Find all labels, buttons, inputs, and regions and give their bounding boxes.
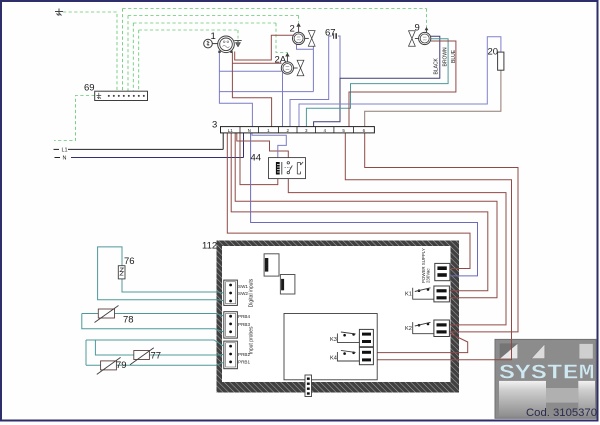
svg-text:PRB2: PRB2 bbox=[238, 352, 250, 357]
svg-text:K3: K3 bbox=[330, 337, 337, 343]
svg-text:SW1: SW1 bbox=[238, 284, 248, 289]
svg-text:Digital inputs: Digital inputs bbox=[249, 278, 255, 307]
svg-text:67: 67 bbox=[325, 28, 336, 39]
svg-text:BLUE: BLUE bbox=[451, 49, 457, 63]
svg-text:69: 69 bbox=[84, 83, 95, 94]
svg-text:3: 3 bbox=[212, 120, 217, 131]
svg-text:2A: 2A bbox=[275, 55, 287, 66]
svg-text:2: 2 bbox=[290, 24, 295, 35]
svg-text:77: 77 bbox=[151, 351, 162, 362]
svg-text:1: 1 bbox=[211, 31, 216, 42]
svg-text:N: N bbox=[248, 128, 251, 133]
svg-text:PRB4: PRB4 bbox=[238, 314, 250, 319]
svg-text:L1: L1 bbox=[228, 128, 234, 133]
svg-text:79: 79 bbox=[116, 360, 127, 371]
svg-text:230Vac: 230Vac bbox=[426, 268, 431, 283]
svg-text:44: 44 bbox=[251, 153, 262, 164]
svg-text:N: N bbox=[63, 156, 67, 162]
svg-text:K2: K2 bbox=[405, 326, 412, 332]
svg-text:Input probes: Input probes bbox=[249, 326, 255, 354]
svg-text:76: 76 bbox=[124, 256, 135, 267]
svg-text:20: 20 bbox=[488, 47, 499, 58]
svg-text:PRB3: PRB3 bbox=[238, 322, 250, 327]
svg-text:BROWN: BROWN bbox=[442, 47, 448, 67]
svg-text:112: 112 bbox=[202, 241, 217, 252]
svg-text:SW2: SW2 bbox=[238, 291, 248, 296]
svg-text:K4: K4 bbox=[330, 356, 337, 362]
svg-text:Cod. 3105370: Cod. 3105370 bbox=[526, 407, 597, 419]
svg-text:9: 9 bbox=[415, 23, 420, 34]
svg-text:PRB1: PRB1 bbox=[238, 360, 250, 365]
svg-text:L1: L1 bbox=[62, 148, 68, 154]
svg-text:BLACK: BLACK bbox=[434, 57, 440, 74]
svg-text:K1: K1 bbox=[405, 291, 412, 297]
svg-text:78: 78 bbox=[123, 315, 134, 326]
